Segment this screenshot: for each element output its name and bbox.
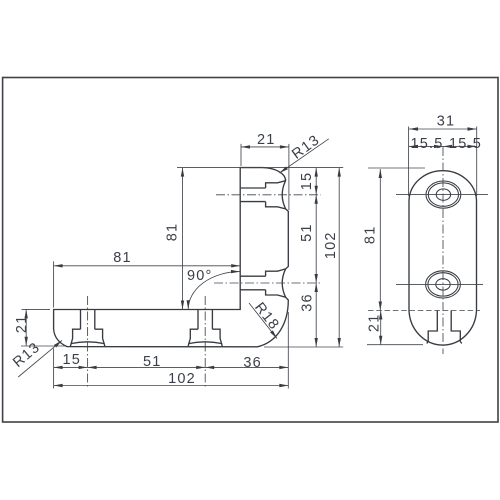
foot F2 neck [198, 310, 212, 330]
foot F4 neck [240, 276, 265, 290]
dim chain bottom [54, 366, 289, 368]
border frame [3, 78, 498, 423]
a:21top [241, 145, 250, 148]
dim chain right [315, 168, 317, 347]
ext bottom right [264, 346, 343, 348]
ext 102 left [53, 349, 55, 389]
leader R18 [249, 303, 277, 339]
a:90 arc ends [187, 300, 190, 309]
svg-text:15: 15 [299, 172, 315, 191]
ext 21r bottom [367, 344, 423, 346]
svg-text:81: 81 [363, 226, 379, 245]
part outline left view [54, 168, 289, 347]
dim 102 right [338, 168, 340, 347]
dim 21 top [241, 146, 289, 148]
foot F1 arch [71, 342, 105, 344]
svg-text:81: 81 [165, 223, 181, 242]
dimension texts [10, 114, 482, 388]
svg-text:36: 36 [299, 293, 315, 312]
a:102r [338, 168, 341, 177]
a:chain bottom [54, 366, 63, 369]
a:21left [25, 309, 28, 318]
hole H1 [426, 181, 461, 208]
ext 21left top [22, 308, 51, 310]
right view [409, 171, 477, 345]
dim 102 bottom [54, 385, 289, 387]
foot F1 neck [81, 310, 95, 330]
svg-text:R13: R13 [10, 339, 43, 371]
hidden base line right view [368, 310, 480, 312]
a:R13 bottom leader [54, 340, 62, 347]
ext 81h [53, 261, 55, 307]
a:102b [54, 384, 63, 387]
center line foot F3 [216, 194, 321, 196]
ext right view col [409, 127, 477, 197]
leader R13 top [280, 139, 329, 173]
svg-text:R13: R13 [289, 132, 323, 163]
dim 21 left [25, 309, 27, 345]
center line foot F2 [204, 296, 206, 389]
a:15.5 [409, 145, 418, 148]
dim 21 right [380, 311, 382, 345]
hole H1 cross [396, 194, 488, 196]
thin lines: center, extension, dimension [18, 127, 488, 390]
a:R18 leader [270, 330, 277, 338]
svg-text:81: 81 [113, 250, 132, 266]
foot F3 neck [240, 188, 265, 202]
a:51r [315, 195, 318, 204]
center line foot F1 [87, 296, 89, 389]
hole H2 [426, 271, 461, 298]
a:81r [379, 169, 382, 178]
a:31 [409, 127, 418, 130]
arrowheads [25, 127, 477, 387]
end foot [427, 311, 462, 344]
plate center line [442, 147, 444, 354]
svg-text:21: 21 [14, 315, 30, 334]
svg-text:36: 36 [243, 355, 262, 371]
ext 81r top [368, 167, 425, 169]
ext 21top left [240, 144, 242, 166]
svg-text:51: 51 [299, 223, 315, 242]
hole H2 cross [396, 283, 483, 285]
dim 81 right [379, 169, 381, 311]
foot F2 arch [188, 342, 222, 344]
svg-text:15: 15 [63, 352, 82, 368]
a:R13 top leader [280, 167, 288, 174]
a:21r [379, 311, 382, 320]
ext 102 right [287, 312, 289, 389]
svg-text:31: 31 [437, 114, 456, 130]
leader R13 bottom [18, 340, 62, 377]
dim 15.5 pair [409, 145, 477, 147]
arc 90 [188, 272, 240, 310]
center line foot F4 [214, 282, 321, 284]
svg-text:51: 51 [143, 354, 162, 370]
svg-text:15.5: 15.5 [449, 136, 482, 152]
ext 21top right [288, 144, 290, 210]
foot F4 step [266, 269, 286, 297]
svg-text:90°: 90° [187, 268, 213, 284]
svg-text:102: 102 [168, 371, 196, 387]
a:36r [315, 283, 318, 292]
svg-text:102: 102 [323, 231, 339, 259]
dim 31 [409, 128, 477, 130]
dim 81 horizontal [54, 265, 241, 267]
svg-text:R18: R18 [251, 300, 282, 334]
ext top edge [177, 167, 343, 169]
a:81v [181, 168, 184, 177]
svg-text:21: 21 [366, 314, 382, 333]
foot F3 step [266, 181, 286, 209]
dim 81 vertical [182, 168, 184, 310]
plate outline [409, 171, 477, 345]
a:15r [315, 168, 318, 177]
a:81h [54, 264, 63, 267]
foot F1 step [70, 329, 105, 346]
svg-text:15.5: 15.5 [410, 136, 443, 152]
svg-text:21: 21 [257, 132, 276, 148]
ext bottom left [21, 345, 67, 347]
foot F2 step [188, 329, 222, 346]
